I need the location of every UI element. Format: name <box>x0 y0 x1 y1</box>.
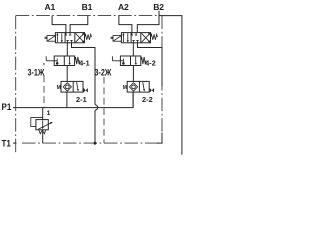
svg-text:B1: B1 <box>82 2 93 12</box>
svg-text:4-2: 4-2 <box>145 59 155 68</box>
svg-text:P1: P1 <box>2 101 12 112</box>
svg-text:3-2Ж: 3-2Ж <box>95 68 113 78</box>
svg-text:1: 1 <box>47 110 51 117</box>
svg-text:A1: A1 <box>45 2 56 12</box>
svg-text:T1: T1 <box>2 138 11 149</box>
svg-text:M: M <box>123 85 127 91</box>
svg-text:2-1: 2-1 <box>76 95 87 104</box>
svg-text:M: M <box>57 85 61 91</box>
svg-text:2-2: 2-2 <box>142 95 153 104</box>
svg-text:3-1Ж: 3-1Ж <box>28 68 46 78</box>
svg-text:A2: A2 <box>118 2 129 12</box>
svg-text:B2: B2 <box>153 2 164 12</box>
svg-text:4-1: 4-1 <box>79 59 89 68</box>
